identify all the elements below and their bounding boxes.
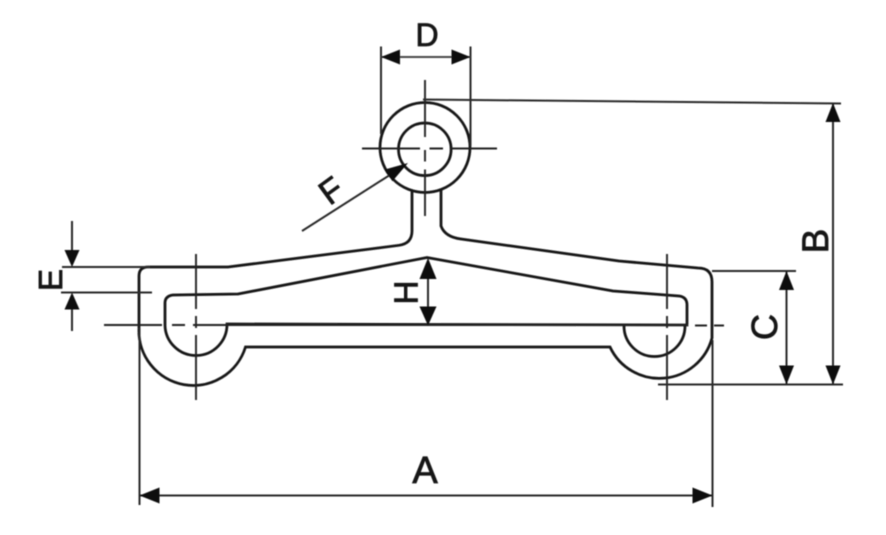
C top extension line	[712, 270, 796, 272]
A left arrow	[140, 488, 160, 504]
E bottom arrow	[65, 293, 80, 310]
svg-text:D: D	[415, 17, 438, 53]
F leader line	[302, 169, 400, 232]
body inner slot contour	[165, 258, 687, 356]
A right extension line	[712, 340, 714, 507]
C top arrow	[779, 271, 794, 290]
body outer contour	[139, 191, 712, 386]
ring vertical centerline	[424, 80, 426, 216]
svg-text:E: E	[32, 269, 69, 291]
H dimension line	[427, 262, 429, 320]
svg-text:H: H	[388, 281, 425, 305]
right lug vertical centerline	[666, 254, 668, 400]
D left arrow	[381, 50, 400, 65]
C bottom arrow	[779, 366, 794, 385]
C/B bottom extension line	[658, 384, 843, 386]
D dimension line	[381, 56, 471, 58]
H bottom arrow	[420, 307, 437, 326]
ring horizontal centerline	[362, 148, 497, 150]
svg-text:F: F	[312, 170, 351, 213]
right lug inner arc	[624, 326, 685, 357]
H top arrow	[420, 258, 437, 279]
ring inner circle	[399, 123, 452, 176]
arrowheads	[65, 50, 841, 504]
left lug vertical centerline	[195, 254, 197, 400]
B dimension line	[832, 103, 834, 385]
E top extension line	[62, 266, 150, 268]
E bottom extension line	[61, 292, 152, 294]
B top extension line	[423, 100, 841, 104]
F arrow	[385, 163, 408, 181]
E dimension line upper	[71, 221, 73, 255]
A right arrow	[693, 488, 713, 504]
svg-text:B: B	[795, 229, 836, 254]
svg-text:C: C	[744, 314, 785, 340]
D right arrow	[452, 50, 471, 65]
E top arrow	[65, 250, 80, 267]
main horizontal centerline	[104, 324, 724, 327]
centerlines	[104, 80, 724, 400]
A dimension line	[140, 495, 713, 497]
E dimension line lower	[71, 303, 73, 331]
B bottom arrow	[826, 366, 841, 385]
D extension lines	[380, 47, 382, 135]
A left extension line	[139, 328, 141, 505]
ring outer circle	[380, 103, 470, 193]
C dimension line	[786, 271, 788, 385]
B top arrow	[826, 103, 841, 122]
dimension + extension lines	[61, 47, 843, 508]
svg-text:A: A	[412, 450, 438, 492]
